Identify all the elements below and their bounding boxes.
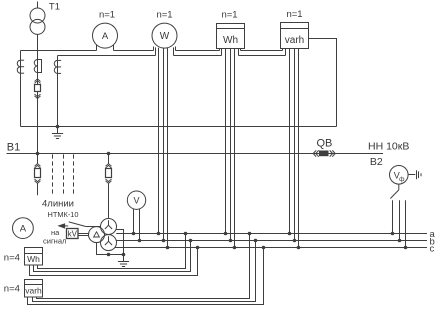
svg-text:n=4: n=4 [4,252,20,263]
wire VT bottom link [97,242,124,255]
kilovoltmeter PV2 [67,229,90,239]
wire varhour meter voltage leads to buses a b c [290,49,299,248]
node varhour meter on bus a [288,232,292,236]
fuse FU3 of voltage transformer [106,154,112,219]
svg-text:сигнал: сигнал [43,237,66,246]
svg-text:n=1: n=1 [286,9,302,20]
node CT3 ground junction [56,125,60,129]
wire T1 feeder down to bus B1 [37,34,39,153]
svg-text:varh: varh [25,286,42,296]
current transformer CT3 secondary winding [54,60,61,73]
node T1 feeder on B1 [36,152,40,156]
wire current circuit line 2 [58,56,286,127]
svg-text:4линии: 4линии [42,198,74,209]
arrester FU1 on T1 feeder [35,79,41,99]
bus b [116,240,427,242]
svg-text:НТМК-10: НТМК-10 [48,210,79,219]
svg-text:n=4: n=4 [4,284,20,295]
varhour meter PK n=1 [281,23,309,56]
wattmeter P2 [152,23,177,55]
wire selector to bus b [399,200,401,240]
outgoing feeder with fuse FU2 [35,154,41,196]
wire feeder Wh to bus a [38,234,186,269]
node feeder varh on bus a [248,232,252,236]
node voltmeter on bus b [138,239,142,243]
svg-text:n=1: n=1 [221,10,237,21]
bus B1 [7,153,384,155]
svg-text:V: V [133,196,139,206]
voltmeter PV [127,191,145,241]
current transformer CT1 secondary winding [17,60,24,73]
wire wattmeter voltage leads to buses a b c [159,48,168,248]
wire feeder varh to bus a [37,234,250,299]
node voltmeter on bus a [132,232,136,236]
node selector on bus a [391,232,395,236]
svg-text:A: A [20,224,27,235]
phase voltmeter PV3 [390,166,409,185]
svg-text:A: A [102,31,109,42]
wire VT neutral to ground [116,230,123,255]
node VT bottom winding [107,253,111,257]
node feeder Wh on bus b [189,239,193,243]
voltage transformer TV NTMK-10 [89,219,117,251]
wire secondary loop left side [20,51,22,127]
wire selector to bus a [392,200,394,233]
node feeder varh on bus b [254,239,258,243]
wire feeder varh to bus c [28,248,264,305]
svg-text:n=1: n=1 [99,10,115,21]
node varhour meter on bus b [293,239,297,243]
wire current circuit line 1 [21,50,283,52]
node watthour meter on bus b [229,239,233,243]
node varhour meter on bus c [297,246,301,250]
wire watthour meter voltage leads to buses a b c [226,49,235,248]
wire secondary loop bottom [21,126,337,128]
node watthour meter on bus a [224,232,228,236]
wire feeder varh to bus b [33,241,256,302]
transformer T1 [30,2,45,35]
signal contact of VT [59,222,101,228]
ammeter of outgoing line [13,218,34,239]
circuit breaker QB drawout [313,150,335,156]
svg-text:НН 10кВ: НН 10кВ [368,141,409,153]
ground at phase voltmeter [417,170,422,179]
node feeder Wh on bus a [184,232,188,236]
node VT feeder on B1 [107,152,111,156]
node wattmeter on bus a [157,232,161,236]
svg-text:varh: varh [285,35,304,46]
wire dashed outgoing line 3 [73,154,75,195]
svg-text:kV: kV [68,230,78,239]
wire selector to bus c [405,200,407,247]
ground at VT [118,255,129,267]
svg-text:B2: B2 [370,156,383,168]
svg-text:B1: B1 [7,141,20,153]
bus a [116,233,427,235]
node selector on bus b [398,239,402,243]
wire feeder Wh to bus b [34,241,191,272]
wire secondary loop right side [309,39,337,127]
ammeter P1 [93,23,118,50]
feeder varhour meter varh n=4 [25,280,43,298]
wire feeder Wh to bus c [30,248,198,276]
svg-text:Wh: Wh [27,254,40,264]
wire phase voltmeter to ground [408,174,415,176]
label na signal [43,228,66,245]
feeder watthour meter Wh n=4 [25,248,43,266]
node wattmeter on bus c [166,246,170,250]
node watthour meter on bus c [233,246,237,250]
watthour meter PI n=1 [217,24,245,56]
node VT ground junction [122,253,126,257]
svg-text:ф: ф [399,176,405,183]
phase selector switch SA [390,184,398,198]
node feeder Wh on bus c [196,246,200,250]
node wattmeter on bus b [162,239,166,243]
wire dashed outgoing line 1 [52,154,54,195]
wire dashed outgoing line 2 [63,154,65,195]
svg-text:Wh: Wh [223,35,238,46]
bus c [115,247,427,249]
svg-text:c: c [430,243,435,254]
node feeder varh on bus c [262,246,266,250]
svg-text:W: W [160,31,170,42]
node selector on bus c [404,246,408,250]
current transformer CT2 on T1 feeder [34,60,41,73]
ground at CT secondary [52,127,63,139]
svg-text:n=1: n=1 [156,10,172,21]
svg-text:T1: T1 [49,2,60,13]
svg-text:QB: QB [317,137,333,149]
